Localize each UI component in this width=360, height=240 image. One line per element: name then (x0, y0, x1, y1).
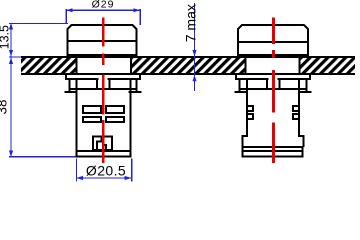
notch left upper (247, 106, 253, 111)
snap tab inner step 3 (96, 140, 98, 148)
collar shoulder stub right (129, 91, 142, 93)
arrow Ø29 left (66, 8, 73, 12)
notch right upper (293, 106, 299, 111)
centerline left seg1 (102, 17, 105, 46)
step-out left horizontal (242, 135, 249, 137)
clip window inner border left right-fig (266, 78, 268, 90)
snap tab inner step 5 (105, 144, 107, 149)
collar shoulder stub left right-fig (235, 91, 248, 93)
collar window bottom line right-fig (239, 88, 308, 90)
dim 7max vertical line (194, 3, 195, 91)
panel hatch middle block (132, 58, 246, 73)
collar outer stub right right-fig (309, 75, 311, 80)
notch left lower (247, 114, 253, 119)
terminal window row1 right (106, 106, 124, 113)
terminal window row2 left (83, 117, 101, 122)
centerline right seg1 (272, 17, 275, 44)
arrow Ø20.5 right (125, 176, 132, 180)
dim Ø29 ext line right (139, 9, 140, 25)
collar window top line left seg (65, 78, 99, 80)
notch right lower (293, 114, 299, 119)
clip window inner border left (96, 78, 98, 90)
cap flange seam (67, 54, 138, 56)
bushing wall right right-fig (299, 56, 301, 73)
dim 13.5/38 vertical line (10, 23, 11, 157)
ext line cap top (9, 23, 68, 24)
rear body wall left (246, 79, 248, 136)
svg-text:13.5: 13.5 (0, 25, 12, 49)
step-out right horizontal (298, 135, 305, 137)
dim Ø29 dimension line (66, 10, 140, 11)
centerline left seg4 (102, 120, 105, 163)
body wall left (76, 79, 78, 151)
cap flange seam right (237, 54, 309, 56)
dim Ø20.5 ext line right (131, 159, 132, 182)
arrow 13.5 bottom (9, 50, 13, 56)
arrow 7max up (192, 75, 196, 81)
collar outer stub left (65, 75, 67, 80)
cap outline right fig (238, 25, 308, 56)
arrow 38 top (9, 58, 13, 65)
arrow Ø20.5 left (76, 176, 83, 180)
centerline right seg2 (272, 50, 275, 58)
body wall right (130, 79, 132, 151)
bushing wall right (130, 56, 132, 73)
centerline left seg3 (102, 75, 105, 115)
collar step wall left right-fig (239, 78, 241, 91)
panel hatch left block (21, 58, 76, 73)
arrow 13.5 top (9, 23, 13, 30)
panel bottom line (21, 73, 355, 75)
ext line body bottom (9, 156, 76, 157)
centerline right seg4 (272, 123, 275, 164)
step-out right vertical (303, 135, 305, 147)
snap tab inner step 1 (100, 138, 102, 143)
ext line panel top left (9, 56, 22, 57)
arrow 7max down (192, 50, 196, 56)
collar window top line right seg right-fig (278, 78, 312, 80)
clip window inner border right (109, 78, 111, 90)
centerline right seg3 (272, 70, 275, 113)
arrow Ø29 right (134, 8, 141, 12)
terminal window row1 left (83, 106, 101, 113)
rear body wall right (298, 79, 300, 136)
collar window top line right seg (108, 78, 142, 80)
collar window bottom line (69, 88, 138, 90)
collar step wall left (69, 78, 71, 91)
snap tab outer box (93, 137, 112, 150)
cap divider line (67, 40, 138, 42)
collar shoulder stub right right-fig (299, 91, 312, 93)
collar window top line left seg right-fig (235, 78, 269, 80)
bottom plate left fig (77, 151, 131, 157)
dim Ø20.5 dimension line (76, 177, 132, 178)
rear bottom plate (243, 147, 303, 157)
svg-text:Ø29: Ø29 (92, 0, 115, 11)
collar outer stub right (139, 75, 141, 80)
step-out left vertical (242, 135, 244, 147)
collar outer stub left right-fig (235, 75, 237, 80)
collar step wall right (136, 78, 138, 91)
svg-text:38: 38 (0, 99, 10, 114)
collar step wall right right-fig (306, 78, 308, 91)
dim Ø20.5 ext line left (76, 159, 77, 182)
rear plate midline (242, 150, 304, 152)
snap tab inner step 2 (96, 140, 102, 142)
svg-text:7 max: 7 max (182, 4, 198, 42)
clip window inner border right right-fig (279, 78, 281, 90)
cap outline left fig (68, 25, 137, 56)
snap tab inner step 4 (102, 144, 106, 146)
panel top line (21, 56, 355, 58)
panel hatch right block (301, 58, 356, 73)
centerline left seg2 (102, 54, 105, 66)
collar shoulder stub left (65, 91, 78, 93)
dim Ø29 ext line left (65, 9, 66, 24)
cap divider line right (237, 41, 309, 43)
arrow 38 bottom (9, 151, 13, 158)
svg-text:Ø20.5: Ø20.5 (86, 163, 126, 179)
terminal window row2 right (106, 117, 124, 122)
bushing wall left right-fig (245, 56, 247, 73)
bushing wall left (76, 56, 78, 73)
